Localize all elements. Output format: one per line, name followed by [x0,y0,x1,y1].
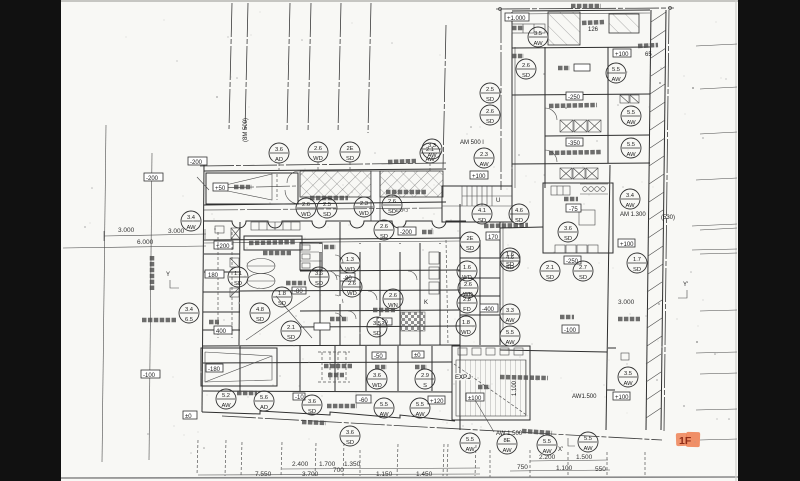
dashdot interior x446 [446,240,448,345]
leader 3.6AD [278,163,280,171]
circle 2.9/S [415,369,435,389]
svg-text:AW: AW [533,41,543,47]
driveway diagonal [197,177,209,190]
stall door arc 2 [335,275,343,283]
stair south wall [446,221,514,223]
ramp corridor label [478,385,490,390]
parking NW centerline [213,186,296,188]
svg-text:2.6: 2.6 [380,224,388,230]
dining east wall [606,165,610,430]
svg-text:U: U [496,198,500,204]
closet x-mark b [230,288,239,297]
ramp outline [452,346,530,420]
svg-text:1F: 1F [679,435,692,447]
circle 5.5/AW wing2 [621,106,641,126]
svg-text:AW: AW [427,153,437,159]
corridor north wall [204,202,446,205]
wing wall x608 [607,47,609,163]
svg-text:AW: AW [186,225,196,231]
svg-text:AW: AW [465,447,475,453]
svg-text:5.5: 5.5 [543,439,551,445]
room grid v420 [419,243,421,345]
night duty box [574,64,590,71]
svg-text:5.5: 5.5 [466,437,474,443]
circle 2.1/SD entrance [281,321,301,341]
box +-100 ramp [466,393,484,402]
svg-text:-75: -75 [569,207,578,213]
svg-text:2.400: 2.400 [292,461,309,468]
svg-text:2.8: 2.8 [463,297,471,303]
lower v240 [239,346,241,391]
svg-text:-250: -250 [568,95,581,101]
boundary line west of wing [443,25,446,168]
svg-text:WD: WD [301,212,311,218]
svg-text:7.550: 7.550 [255,471,272,478]
svg-text:700: 700 [333,467,344,474]
corridor wavy wall [204,221,466,228]
svg-text:±0: ±0 [185,414,192,420]
svg-text:SD: SD [380,234,388,240]
svg-text:AW: AW [379,412,389,418]
lower band h390 [203,391,452,392]
dining rooms h278 [460,277,500,279]
circle 4.6/SD a [509,204,529,224]
svg-text:SD: SD [278,301,286,307]
lower v366 [365,346,367,391]
ramp steps [456,360,526,416]
circle 4.6/SD b [500,251,520,271]
svg-text:5.5: 5.5 [416,402,424,408]
room grid h310 [300,310,460,311]
box -50 manager [377,318,392,326]
right margin tick y439 [700,439,737,440]
room grid h345 [203,345,460,346]
svg-text:2.6: 2.6 [389,293,397,299]
right margin tick pair y225 [692,224,737,226]
closet rect 1 [429,252,439,264]
svg-text:1.3: 1.3 [346,257,354,263]
svg-text:AW: AW [623,381,633,387]
right margin tick y88 [700,87,737,89]
svg-text:5.6: 5.6 [260,395,268,401]
west room wall y330 [203,329,240,331]
west room wall y254 [204,253,240,255]
circle 3.4/AW kitchen [620,189,640,209]
svg-text:SD: SD [388,209,396,215]
svg-text:65: 65 [645,52,652,58]
circle 1.1/SD [228,267,248,287]
circle 5.2/AW [216,389,236,409]
circle 3.5/SD [367,317,387,337]
hatch west door arc a [287,171,299,183]
svg-text:AW: AW [625,203,635,209]
grid line V5 [338,3,341,132]
stall door arc 1 [335,255,343,263]
wing boundary corner dots [499,8,502,11]
right margin tick y310 [700,310,737,311]
room grid h326 [300,326,460,327]
bicycle hatch A [300,171,371,197]
svg-text:AW: AW [611,77,621,83]
svg-text:WD: WD [359,211,369,217]
svg-text:SD: SD [564,236,572,242]
road line west [102,125,106,462]
circle 4.1/SD [472,204,492,224]
boundary label north [388,161,416,162]
svg-text:5.5: 5.5 [627,142,635,148]
front road label [142,318,176,323]
svg-text:3.6: 3.6 [308,399,316,405]
bicycle hatch B label [386,190,426,195]
bottom dropper x226 [225,440,226,476]
east wall fixture box [621,353,629,360]
closet x-mark a [230,258,239,267]
kitchen island [579,210,595,225]
svg-text:3.700: 3.700 [302,471,319,478]
grid line V3 [287,3,290,131]
svg-text:3.6: 3.6 [275,147,283,153]
east service strip west line [646,10,651,430]
right black bar [738,0,800,481]
door arc room2 [368,291,377,300]
circle 5.6/AD [254,391,274,411]
svg-text:+120: +120 [430,399,444,405]
circle 8E/AW [497,434,517,454]
svg-text:3.5: 3.5 [534,31,542,37]
bottom dropper x282 [281,442,282,476]
svg-text:AW: AW [626,120,636,126]
entrance ramp diagonal b [246,296,310,340]
lower v398 [397,346,399,391]
svg-text:SD: SD [633,267,641,273]
mail corner west wall x240 [239,222,240,345]
svg-text:SD: SD [256,317,264,323]
east service strip east line [661,10,666,430]
circle 3.4/AW [181,211,201,231]
svg-text:3.4: 3.4 [185,307,194,313]
kitchen outline [543,183,613,253]
room grid v340 [339,222,341,345]
svg-text:1.350: 1.350 [344,461,361,468]
svg-text:3.4: 3.4 [187,215,196,221]
ramp diagonal dashdot [454,364,528,416]
circle 5.5/AW wing1 [606,63,626,83]
svg-text:WD: WD [461,330,471,336]
svg-text:2.5: 2.5 [486,87,494,93]
main west wall [202,165,204,412]
storage label 2F row1 [324,364,352,369]
svg-text:WD: WD [347,291,357,297]
svg-text:2.1: 2.1 [546,265,554,271]
circle 2.1/AW [420,143,440,163]
svg-text:2.3: 2.3 [480,152,488,158]
box +120 [428,396,445,405]
svg-text:-200: -200 [190,160,203,166]
box +1000 [505,13,529,22]
office box [314,323,330,330]
svg-text:AM 500 l: AM 500 l [460,140,484,146]
dimension line 6000 [63,246,206,248]
right bottom dropper x568 [567,452,569,477]
svg-text:SD: SD [546,275,554,281]
circle 3.6/SD bottom [340,426,360,446]
circle 3.3/AW a [500,304,520,324]
east wall pilaster a [608,347,616,349]
svg-text:(530): (530) [661,215,675,221]
circle 5.5/AW wing3 [621,138,641,158]
box +100 southeast [613,392,630,401]
circle 3.6/SD low [302,395,322,415]
svg-text:+100: +100 [620,242,634,248]
svg-text:±100: ±100 [468,396,482,402]
laundry room2 label [549,152,601,153]
svg-text:-100: -100 [564,328,577,334]
svg-text:SD: SD [346,156,354,162]
svg-text:SD: SD [478,218,486,224]
closet rect 3 [429,282,439,294]
circle 3.5/AW wing [528,27,548,47]
svg-text:K: K [424,300,428,306]
circle 2.6/SD corridor [374,220,394,240]
wing boundary dashdot top [496,8,674,9]
dining south wall [500,350,607,352]
south boundary label west [302,422,326,423]
svg-text:170: 170 [488,235,499,241]
door arc room3 [408,271,417,280]
sliding column dashed b [231,232,233,338]
svg-text:5.5: 5.5 [506,330,514,336]
lower v335 [334,346,336,391]
svg-text:+100: +100 [615,52,629,58]
room grid v400 [399,243,401,345]
box +-0 road [183,411,197,420]
room grid v460 [459,204,461,430]
svg-text:4.6: 4.6 [515,208,523,214]
svg-text:2.6: 2.6 [464,282,472,288]
svg-text:S: S [423,383,427,389]
svg-text:1.8: 1.8 [278,291,286,297]
east strip diagonals [646,12,666,418]
kitchen serving counter [555,245,598,253]
box +100 wing [613,49,631,58]
corridor south wall thin [204,241,460,243]
circle 2.6/SD wing2 [480,105,500,125]
circle 5.5/AW se1 [460,433,480,453]
svg-text:126: 126 [588,27,599,33]
wing boundary label [571,4,601,9]
bicycle hatch B [380,171,443,197]
circle 3.5/AW east [618,367,638,387]
washer row small east [620,95,639,103]
door gap g3 [399,244,402,252]
svg-text:+100: +100 [472,174,486,180]
toilet label [324,245,336,250]
right dim line row1 [530,460,608,461]
parking SW label [237,391,257,396]
road center line label (vertical) [150,256,155,290]
room grid v360 [359,243,361,345]
circle 2.3/AW [474,148,494,168]
svg-text:AW: AW [221,403,231,409]
washer row 2 [560,168,598,179]
svg-text:2.1: 2.1 [287,325,295,331]
svg-text:4.1: 4.1 [478,208,486,214]
svg-text:AW1.500: AW1.500 [572,394,597,400]
parking NW wedge base dashed [276,174,278,200]
Y prime angle [678,290,687,298]
toilet block [300,243,322,270]
circle 2.6/WD b [296,198,316,218]
highlight 1F mark [676,432,700,447]
entrance double door lower [247,274,275,289]
svg-text:3.6: 3.6 [346,430,354,436]
stairs NE block [442,171,512,222]
night duty room label [558,66,570,71]
svg-text:-200: -200 [400,230,413,236]
svg-text:-200: -200 [146,176,159,182]
closet x-box corridor [231,228,240,239]
box -80 entrance [292,287,306,295]
box -75 kitchen [566,204,581,213]
parking NW outline [206,173,298,204]
right dim line row2 [510,470,610,471]
grid line V6 [368,3,371,133]
private corner label [484,225,528,226]
bottom dropper x476 [475,445,476,476]
right margin tick pair y250 [692,249,737,250]
closet rect 2 [429,267,439,279]
strip label [638,45,658,46]
svg-text:SD: SD [373,331,381,337]
ramp top squares [458,348,523,355]
svg-text:-400: -400 [482,307,495,313]
room grid v440 [439,243,441,345]
box -350 wing [566,138,583,147]
circle 2.6/SD c [382,195,402,215]
svg-text:3.3: 3.3 [506,308,514,314]
svg-text:1.500: 1.500 [576,454,593,461]
box -200 b [144,173,163,182]
corridor south wall [204,238,460,240]
svg-text:4.8: 4.8 [256,307,264,313]
wing west wall inner [514,47,516,188]
checker tile floor [401,312,425,331]
svg-text:SD: SD [506,262,514,268]
right margin tick y373 [700,373,737,374]
left black bar [0,0,61,481]
right bottom dropper x530 [529,450,531,477]
right bottom dropper x490 [489,450,491,477]
circle 5.5/AW se2 [537,435,557,455]
circle 5.5/AW mid [500,326,520,346]
entrance ramp diagonal [276,296,312,338]
room grid h290 [240,290,460,291]
circle 4.8/SD [250,303,270,323]
west room wall y292 [203,291,240,293]
storage label west [209,320,219,325]
box -400 [480,304,498,313]
bath label [375,365,387,370]
svg-text:X': X' [558,447,563,453]
escape route label [327,404,357,409]
circle 3.6/WD [367,369,387,389]
parking NW wedge [213,174,272,200]
svg-text:-350: -350 [568,141,581,147]
box -250 wing [566,92,583,101]
store note text [582,22,604,23]
parking SW diagonal [205,356,272,382]
hatched store room A [548,12,580,45]
room grid h270 [300,270,460,271]
svg-text:AW: AW [505,340,515,346]
circle 3.6/AD [269,143,289,163]
circle 1.8/WD [456,316,476,336]
svg-text:1.8: 1.8 [462,320,470,326]
svg-text:+100: +100 [615,395,629,401]
box +200 [214,241,233,250]
box -200 corridor [398,227,416,236]
wing outline top wall [512,10,650,11]
leader elevator note [475,400,494,432]
svg-text:1.100: 1.100 [512,380,518,396]
svg-text:6.000: 6.000 [137,239,154,246]
bottom dropper x444 [443,444,444,476]
manager room label [373,308,395,313]
svg-text:AW: AW [542,449,552,455]
right margin tick y133 [700,132,737,134]
dining rooms h315 [460,314,500,316]
door gap g4 [439,244,442,252]
mail box label [263,251,291,256]
right margin tick y179 [696,178,737,180]
circle 1.3/WD [340,253,360,273]
yuwakashi label [512,54,524,59]
svg-text:2.6: 2.6 [302,202,310,208]
parking SW outline [201,348,277,386]
pillar gap [371,171,380,221]
svg-text:-250: -250 [566,259,579,265]
east wall pilaster b [607,389,615,391]
svg-text:SD: SD [234,281,242,287]
road line east [149,153,152,460]
circle 3.3/AW wing [422,139,442,159]
office label [330,317,348,322]
svg-text:3.3: 3.3 [428,143,436,149]
svg-text:AW: AW [479,162,489,168]
svg-text:SD: SD [466,246,474,252]
box -60 [356,395,371,404]
svg-text:WD: WD [345,267,355,273]
svg-text:±0: ±0 [414,353,421,359]
wing top small boxes [512,24,545,33]
svg-text:3.4: 3.4 [626,193,635,199]
svg-text:3.6: 3.6 [315,271,323,277]
svg-text:550: 550 [595,466,606,473]
south wall steps [202,411,455,421]
svg-text:1.1: 1.1 [234,271,242,277]
washer row 1 [560,120,601,132]
anteroom label [415,365,427,370]
corridor label [422,230,434,235]
svg-text:AW: AW [505,318,515,324]
mail corner label [249,242,295,243]
circle 5.5/AW low2 [410,398,430,418]
dining rooms h296 [460,295,500,297]
Y axis angle [170,280,179,288]
sliding column dashed a [217,232,219,338]
bicycle hatch A label [310,196,348,201]
box -50 bath [372,352,386,360]
